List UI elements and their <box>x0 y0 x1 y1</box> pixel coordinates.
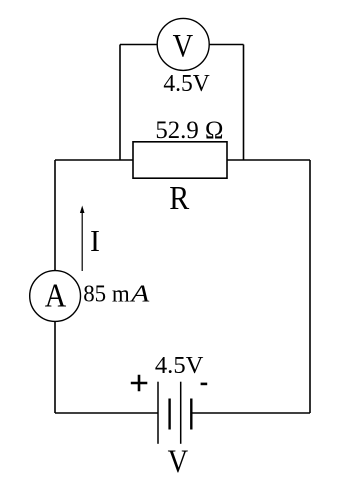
wire voltmeter branch left vertical <box>119 45 121 161</box>
wire voltmeter branch top left horizontal <box>120 44 158 46</box>
battery short plate 2 <box>190 399 192 430</box>
wire right vertical <box>309 160 311 413</box>
wire main top horizontal <box>55 159 310 161</box>
svg-text:R: R <box>169 180 189 217</box>
svg-text:I: I <box>90 223 100 258</box>
svg-text:52.9 Ω: 52.9 Ω <box>155 117 223 144</box>
svg-text:V: V <box>168 444 189 480</box>
svg-text:4.5V: 4.5V <box>163 71 210 97</box>
svg-text:A: A <box>129 282 150 308</box>
battery short plate 1 <box>168 399 170 430</box>
svg-text:A: A <box>45 277 67 314</box>
battery long plate 2 <box>180 382 182 444</box>
wire bottom left segment <box>55 412 158 414</box>
svg-text:4.5V: 4.5V <box>155 353 204 379</box>
battery plus sign <box>131 375 148 392</box>
resistor R body <box>133 142 227 178</box>
wire left vertical <box>54 160 56 413</box>
ammeter A1 circle <box>30 271 81 322</box>
svg-text:85 m: 85 m <box>83 282 130 308</box>
current arrow <box>81 212 83 271</box>
wire voltmeter branch top right horizontal <box>209 44 244 46</box>
battery long plate 1 <box>157 382 159 444</box>
voltmeter V1 circle <box>157 18 209 70</box>
wire bottom right segment <box>191 412 310 414</box>
battery minus sign <box>201 383 208 386</box>
wire voltmeter branch right vertical <box>243 45 245 161</box>
svg-text:V: V <box>173 28 194 64</box>
